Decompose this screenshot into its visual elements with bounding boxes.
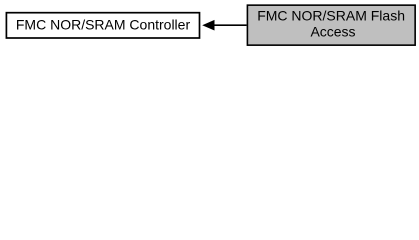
svg-text:FMC NOR/SRAM Flash: FMC NOR/SRAM Flash [257, 8, 405, 24]
svg-text:FMC NOR/SRAM Controller: FMC NOR/SRAM Controller [16, 17, 191, 33]
svg-text:Access: Access [310, 23, 355, 39]
